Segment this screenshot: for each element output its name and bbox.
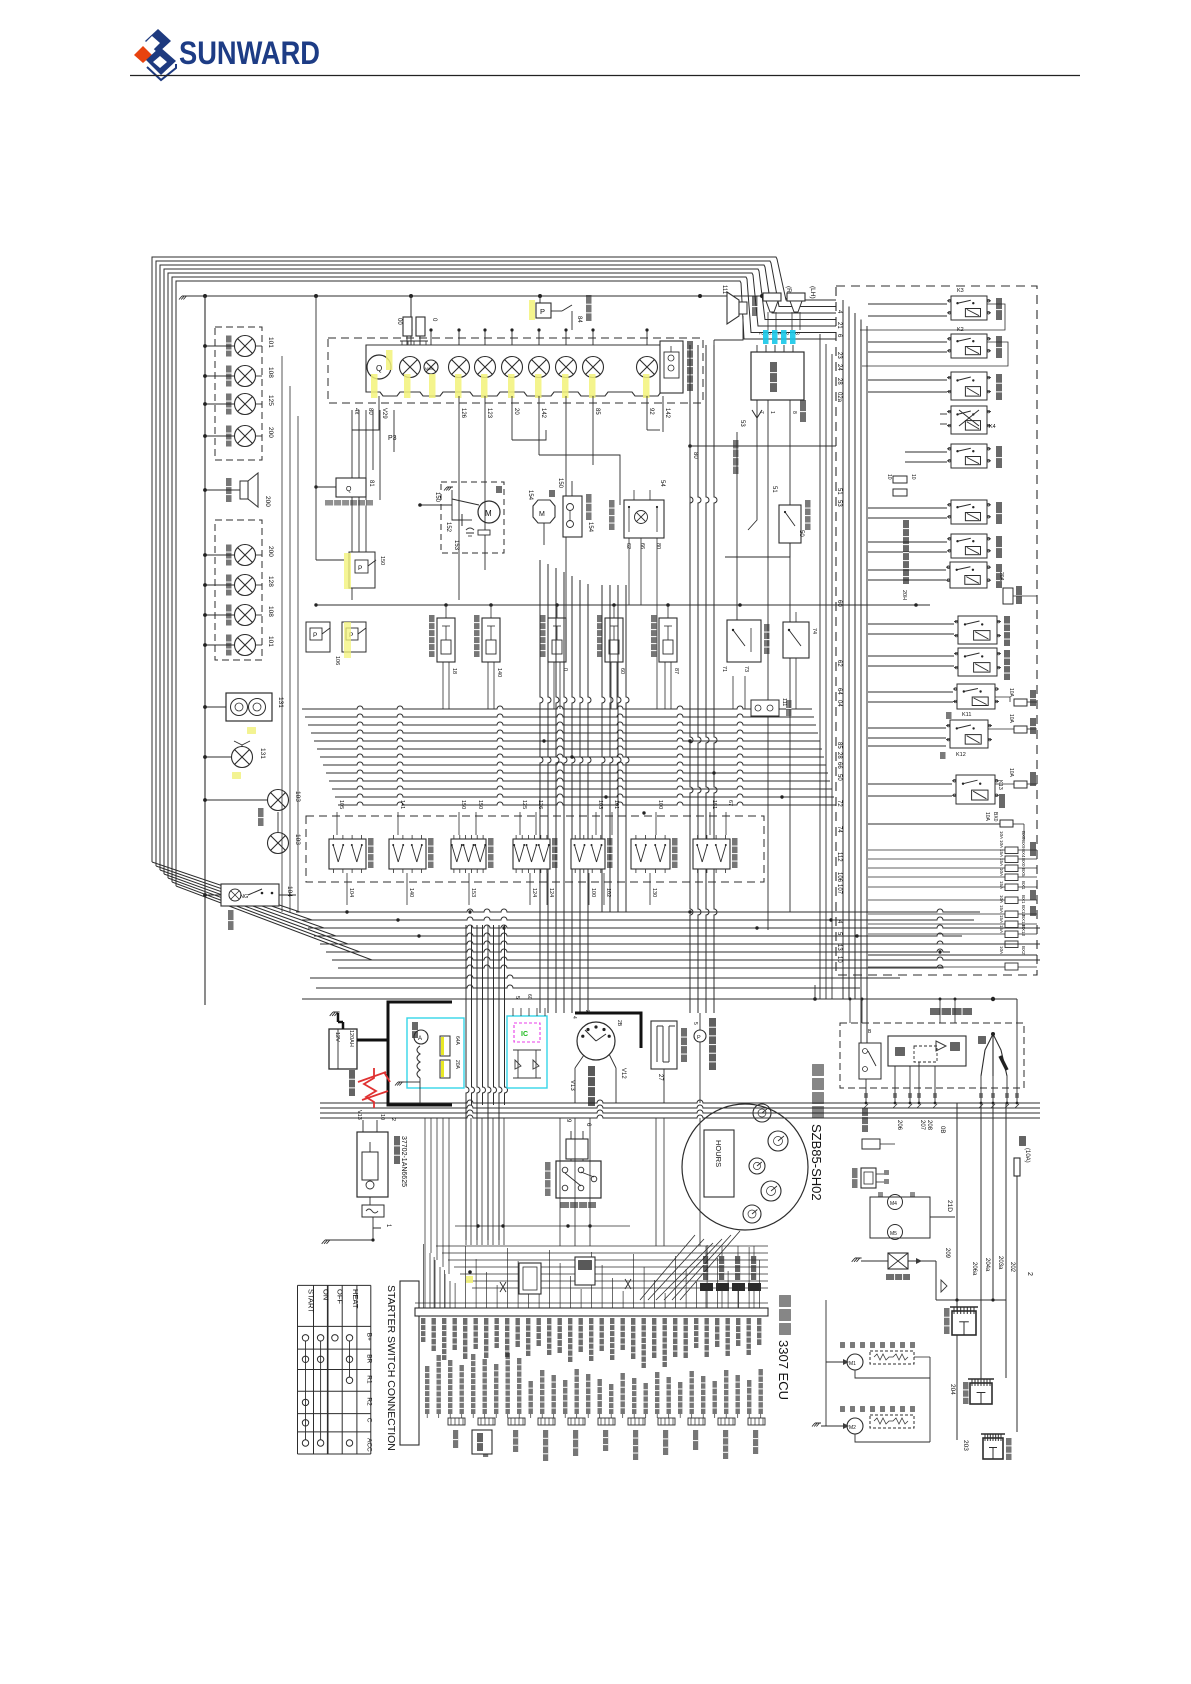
svg-text:V29: V29 — [381, 408, 387, 419]
svg-text:126: 126 — [460, 408, 466, 419]
cigar lighter 131 — [205, 706, 226, 708]
dashed box - marker lamp group 1 — [215, 327, 262, 460]
svg-text:200: 200 — [267, 427, 274, 438]
svg-text:204a: 204a — [984, 1258, 990, 1272]
fuse 10A BX2 bottom — [868, 966, 1005, 968]
svg-text:103: 103 — [597, 800, 603, 809]
svg-text:10A: 10A — [1008, 688, 1014, 698]
svg-text:20: 20 — [513, 408, 519, 415]
svg-text:153: 153 — [453, 540, 459, 551]
door switch 71/73 — [727, 620, 761, 662]
svg-text:10A: 10A — [999, 946, 1004, 954]
wires - radio drops — [748, 408, 757, 530]
svg-text:OFF: OFF — [336, 1289, 345, 1304]
ECU lower connectors — [448, 1418, 465, 1425]
ECU lower labels — [425, 1353, 763, 1418]
wires - lamp column feeders — [281, 356, 283, 912]
svg-text:203: 203 — [962, 1440, 969, 1451]
svg-text:37702-1AN6625: 37702-1AN6625 — [400, 1136, 407, 1187]
lamp 103 a — [205, 799, 267, 801]
svg-text:101: 101 — [613, 800, 619, 809]
glow plug red — [358, 1068, 390, 1108]
svg-text:10: 10 — [886, 474, 892, 480]
svg-text:P: P — [313, 632, 317, 639]
svg-text:140: 140 — [408, 888, 414, 897]
svg-text:92: 92 — [648, 408, 654, 415]
small gauges — [753, 1104, 771, 1122]
switch box 74 — [783, 622, 809, 658]
svg-text:R2: R2 — [365, 1397, 372, 1406]
svg-text:107: 107 — [836, 884, 842, 895]
switch modules row — [329, 839, 366, 869]
wires - relay row pins to bundle — [443, 676, 745, 805]
svg-text:207: 207 — [919, 1120, 925, 1131]
svg-text:66: 66 — [639, 543, 645, 549]
svg-text:74: 74 — [811, 628, 817, 634]
svg-text:(10A): (10A) — [1024, 1148, 1030, 1163]
wires - mid to ECU verticals — [559, 1118, 561, 1246]
solenoid valve — [855, 1257, 862, 1259]
svg-text:2: 2 — [584, 1010, 590, 1013]
svg-text:10A: 10A — [999, 895, 1004, 903]
wire - distribution line y605 — [316, 604, 930, 606]
dashed box - marker lamp group 2 — [215, 520, 262, 660]
wiper motor M2 — [847, 1418, 863, 1434]
label mid frame — [903, 520, 909, 584]
battery 12V 120AH — [329, 1029, 357, 1069]
svg-text:124: 124 — [548, 888, 554, 897]
sensor box 81 — [336, 478, 366, 497]
svg-text:81: 81 — [368, 480, 374, 487]
wire - switch50 bottom link — [725, 543, 790, 557]
svg-text:150: 150 — [557, 478, 563, 489]
header rule — [130, 75, 1080, 77]
svg-text:103: 103 — [294, 834, 301, 845]
svg-text:72: 72 — [836, 800, 842, 807]
ground left of top bus — [182, 295, 188, 297]
svg-text:04: 04 — [836, 700, 842, 707]
switch row wire drops — [346, 873, 348, 905]
bottom right vertical wires — [935, 1261, 937, 1300]
HOURS box — [704, 1130, 734, 1197]
svg-text:101: 101 — [267, 636, 274, 647]
svg-text:124: 124 — [531, 888, 537, 897]
svg-text:10A: 10A — [1008, 714, 1014, 724]
svg-text:150: 150 — [434, 492, 440, 503]
svg-text:15A: 15A — [999, 905, 1004, 913]
gauge Q — [367, 355, 391, 379]
svg-text:BR: BR — [365, 1354, 372, 1363]
svg-text:A: A — [418, 1036, 422, 1042]
wire bundle - middle horizontal — [302, 706, 836, 805]
wire top right junction — [302, 998, 1017, 1000]
svg-text:85: 85 — [836, 742, 842, 749]
wire bundle - center verticals — [540, 345, 717, 1013]
regulator box cyan — [407, 1018, 464, 1088]
bottom right connecting wires — [825, 1300, 827, 1426]
svg-text:K13: K13 — [997, 780, 1003, 790]
lamp 108 — [205, 614, 234, 616]
lamp 103 b — [268, 833, 289, 854]
ECU left bundle verticals — [424, 1118, 426, 1246]
svg-text:2B: 2B — [616, 1020, 622, 1027]
svg-text:18: 18 — [451, 668, 457, 674]
svg-text:13: 13 — [836, 944, 842, 951]
svg-text:108: 108 — [267, 606, 274, 617]
svg-text:200: 200 — [264, 496, 271, 507]
svg-text:203a: 203a — [997, 1256, 1003, 1270]
fuel pump — [694, 1030, 706, 1042]
coil 203 — [983, 1438, 1003, 1459]
svg-text:P: P — [540, 307, 545, 316]
svg-text:15A: 15A — [999, 881, 1004, 889]
cluster wire fan — [640, 1231, 740, 1300]
ECU connector bar — [415, 1308, 768, 1316]
svg-text:2: 2 — [1026, 1272, 1033, 1276]
svg-text:8: 8 — [791, 411, 797, 414]
svg-text:151: 151 — [711, 800, 717, 809]
svg-text:V12: V12 — [620, 1068, 626, 1079]
button box — [861, 1168, 876, 1188]
svg-text:SZB85-SH02: SZB85-SH02 — [809, 1124, 824, 1201]
svg-text:STARTER SWITCH CONNECTION: STARTER SWITCH CONNECTION — [385, 1285, 397, 1451]
svg-text:K2: K2 — [957, 327, 964, 333]
svg-text:101: 101 — [267, 337, 274, 348]
svg-text:21D: 21D — [946, 1200, 953, 1212]
svg-text:20A: 20A — [454, 1060, 460, 1070]
svg-text:154: 154 — [527, 490, 533, 501]
svg-text:20H: 20H — [901, 590, 907, 600]
terminal tick labels — [864, 1093, 868, 1098]
svg-text:10A: 10A — [999, 831, 1004, 839]
relay K12 — [950, 720, 988, 748]
svg-text:106: 106 — [836, 872, 842, 883]
lamp 125 — [205, 403, 234, 405]
svg-text:60: 60 — [619, 668, 625, 674]
svg-text:71: 71 — [721, 666, 727, 672]
thick battery cables — [357, 1002, 641, 1105]
svg-text:4: 4 — [571, 1016, 577, 1019]
svg-text:R1: R1 — [365, 1375, 372, 1384]
relay K8 — [950, 562, 987, 588]
svg-text:0B: 0B — [939, 1126, 945, 1133]
lamp 200 — [205, 435, 234, 437]
svg-text:100: 100 — [657, 800, 663, 809]
svg-text:126: 126 — [537, 800, 543, 809]
svg-text:M: M — [485, 509, 492, 518]
svg-text:200: 200 — [267, 546, 274, 557]
svg-text:M5: M5 — [890, 1231, 897, 1237]
ECU pin comb above bar — [424, 1244, 760, 1308]
svg-text:23: 23 — [836, 352, 842, 359]
frame bottom inner line — [868, 954, 1037, 956]
svg-text:10: 10 — [910, 474, 916, 480]
ECU lower wire bar — [425, 1411, 768, 1413]
relay K11 — [957, 684, 995, 709]
washer coil 204 — [970, 1383, 992, 1404]
svg-text:5: 5 — [692, 1022, 698, 1025]
lamp 101 — [205, 345, 234, 347]
svg-text:BX1: BX1 — [1021, 895, 1026, 904]
svg-text:ACC: ACC — [365, 1438, 372, 1452]
washer pump M 154 — [533, 500, 555, 523]
svg-text:108: 108 — [267, 367, 274, 378]
svg-text:HOURS: HOURS — [714, 1140, 723, 1167]
cluster label SZB85-SH02 — [812, 1064, 824, 1118]
svg-text:206a: 206a — [971, 1262, 977, 1276]
svg-text:27: 27 — [657, 1074, 663, 1081]
svg-text:106: 106 — [334, 656, 340, 665]
svg-text:10A: 10A — [1008, 768, 1014, 778]
P switch top — [536, 303, 551, 318]
svg-text:V13: V13 — [569, 1080, 575, 1091]
svg-text:K3: K3 — [957, 288, 964, 294]
svg-text:10A: 10A — [984, 812, 990, 822]
svg-text:80: 80 — [655, 543, 661, 549]
svg-text:BX8: BX8 — [1021, 831, 1026, 840]
ECU label — [779, 1295, 791, 1335]
svg-text:M4: M4 — [890, 1201, 897, 1207]
svg-text:10A: 10A — [999, 840, 1004, 848]
svg-text:BX13: BX13 — [1021, 925, 1026, 937]
ECU upper pin labels — [421, 1318, 761, 1368]
svg-text:Q: Q — [346, 486, 352, 493]
svg-text:62: 62 — [625, 543, 631, 549]
radio — [751, 352, 804, 400]
svg-text:M1: M1 — [849, 1361, 856, 1367]
svg-text:208: 208 — [926, 1120, 932, 1131]
svg-text:2: 2 — [758, 332, 764, 335]
lamp 101 — [205, 644, 234, 646]
ECU left feed bundle — [425, 1246, 450, 1308]
svg-text:60: 60 — [836, 600, 842, 607]
relay - headlamp relays row — [437, 618, 455, 662]
instrument cluster circle SZB85 — [682, 1104, 808, 1230]
wire - top bus — [188, 295, 762, 297]
wire - ECU pre-gather line — [455, 1225, 630, 1227]
svg-text:53: 53 — [739, 420, 745, 427]
svg-text:150: 150 — [477, 800, 483, 809]
wires - cluster drops — [351, 300, 353, 396]
glow relay coil — [952, 1311, 976, 1335]
dashed box - wiper motor — [441, 482, 504, 553]
wire bundle - lower horizontal — [296, 909, 1040, 988]
svg-text:62: 62 — [836, 660, 842, 667]
svg-text:104: 104 — [286, 886, 293, 897]
svg-text:Q: Q — [376, 364, 382, 373]
svg-text:02a: 02a — [836, 392, 842, 403]
svg-text:20A: 20A — [998, 572, 1004, 582]
vertical feeders down to battery row — [419, 1084, 421, 1103]
svg-text:4x: 4x — [353, 408, 359, 414]
wire bundle - bottom horizontal — [320, 1100, 1040, 1118]
preheat fuse box — [862, 1108, 868, 1132]
svg-text:85: 85 — [594, 408, 600, 415]
relay K5 — [951, 444, 987, 468]
svg-text:103: 103 — [294, 791, 301, 802]
svg-text:15A: 15A — [999, 858, 1004, 866]
svg-text:140: 140 — [496, 668, 502, 677]
fuse 20A top right — [1003, 588, 1013, 604]
alternator regulator boxes — [859, 1043, 881, 1079]
svg-text:67: 67 — [727, 800, 733, 806]
svg-text:125: 125 — [267, 395, 274, 406]
svg-text:0: 0 — [562, 668, 568, 671]
svg-text:BX0: BX0 — [992, 812, 998, 822]
svg-text:51: 51 — [771, 486, 777, 493]
svg-text:IC: IC — [521, 1031, 528, 1038]
svg-text:V13: V13 — [356, 1110, 362, 1120]
svg-text:80: 80 — [692, 452, 698, 459]
dashed box - alternator — [840, 1023, 1024, 1088]
relay K9 — [951, 372, 987, 400]
yellow highlights — [371, 350, 650, 398]
svg-text:24: 24 — [836, 364, 842, 371]
svg-text:12V: 12V — [334, 1032, 340, 1042]
relay K2 — [951, 334, 987, 358]
svg-text:120AH: 120AH — [348, 1030, 354, 1047]
ECU upper right connectors — [700, 1283, 713, 1291]
svg-text:21: 21 — [836, 322, 842, 329]
relay K7 — [951, 534, 987, 558]
svg-text:130: 130 — [651, 888, 657, 897]
junction dots on bundles — [345, 910, 348, 913]
svg-text:HEAT: HEAT — [351, 1289, 360, 1309]
SUNWARD logo icon — [134, 29, 176, 80]
svg-text:152: 152 — [445, 522, 451, 533]
svg-text:142: 142 — [540, 408, 546, 419]
switch row top feeds — [336, 812, 338, 835]
svg-text:K11: K11 — [962, 712, 971, 718]
svg-text:K12: K12 — [956, 752, 966, 758]
switch 106 small P pair — [306, 622, 330, 652]
wiper motor M1 — [847, 1354, 863, 1370]
small box right of cluster - hourmeter disc — [660, 341, 683, 393]
svg-text:15A: 15A — [999, 925, 1004, 933]
svg-text:MAIN: MAIN — [425, 367, 434, 371]
starter motor — [357, 1132, 388, 1197]
Mobile box — [472, 1430, 492, 1454]
svg-text:50: 50 — [836, 774, 842, 781]
svg-text:START: START — [307, 1289, 316, 1313]
right vertical bus — [820, 300, 867, 1043]
alternator claw — [981, 1034, 993, 1076]
antenna — [756, 418, 758, 430]
dashed frame - relay panel — [836, 286, 1037, 975]
svg-text:BX4: BX4 — [1021, 849, 1026, 858]
ECU small boxes upper — [519, 1263, 541, 1294]
alternator drop wires — [865, 1079, 867, 1103]
svg-text:206: 206 — [896, 1120, 902, 1131]
safety relay box — [566, 1139, 588, 1159]
svg-text:51: 51 — [836, 488, 842, 495]
instrument cluster body — [366, 345, 683, 396]
svg-text:ON: ON — [322, 1289, 331, 1300]
svg-text:P: P — [697, 1035, 701, 1041]
svg-text:153: 153 — [470, 888, 476, 897]
dashed box - instrument lamp cluster — [328, 338, 703, 403]
svg-text:BX2: BX2 — [1021, 946, 1026, 955]
svg-text:104: 104 — [348, 888, 354, 897]
switch 150 small — [349, 552, 375, 588]
svg-text:74: 74 — [836, 826, 842, 833]
wires - switch row to bundle links — [336, 805, 338, 812]
fan motors M4 M5 — [870, 1197, 930, 1238]
svg-text:102: 102 — [605, 888, 611, 897]
svg-text:P3: P3 — [388, 435, 397, 442]
svg-text:131: 131 — [277, 697, 284, 708]
wiper motor M — [478, 501, 500, 523]
lamp 131 with bracket — [205, 756, 231, 758]
ECU outer boxes — [400, 1281, 419, 1445]
lamp 200 — [205, 554, 234, 556]
svg-text:SUNWARD: SUNWARD — [179, 35, 320, 71]
choke heater — [651, 1021, 677, 1069]
svg-text:00: 00 — [396, 318, 402, 325]
svg-text:K4: K4 — [989, 424, 996, 430]
horn button 111 — [751, 700, 779, 716]
svg-text:C: C — [365, 1418, 372, 1423]
svg-text:123: 123 — [486, 408, 492, 419]
relay K10 pair — [958, 616, 997, 644]
svg-text:80: 80 — [367, 408, 373, 415]
horn speaker — [205, 489, 248, 491]
fuse bank — [868, 849, 1005, 851]
svg-text:64: 64 — [836, 688, 842, 695]
svg-text:10A: 10A — [999, 868, 1004, 876]
wire bundle - left vertical drop — [466, 925, 508, 1240]
svg-text:BX0: BX0 — [1021, 858, 1026, 867]
svg-text:66: 66 — [836, 762, 842, 769]
svg-text:28: 28 — [836, 752, 842, 759]
ignition switch — [577, 1022, 615, 1060]
svg-text:2: 2 — [390, 1118, 396, 1121]
svg-text:53: 53 — [836, 500, 842, 507]
relay K4 — [951, 406, 987, 434]
svg-text:54: 54 — [659, 480, 665, 487]
svg-text:105: 105 — [338, 800, 344, 809]
svg-text:NG: NG — [240, 894, 248, 900]
svg-text:150: 150 — [460, 800, 466, 809]
svg-text:64A: 64A — [454, 1036, 460, 1046]
relay K6 — [951, 500, 987, 524]
flasher box cyan with IC — [507, 1016, 547, 1088]
svg-text:112: 112 — [836, 852, 842, 862]
svg-text:202: 202 — [1009, 1262, 1015, 1273]
svg-text:209: 209 — [944, 1248, 950, 1259]
svg-text:150: 150 — [379, 556, 385, 565]
svg-text:154: 154 — [587, 522, 593, 533]
starter solenoid small — [362, 1205, 384, 1217]
svg-text:111: 111 — [721, 285, 727, 295]
dashed box - switch row — [306, 816, 764, 882]
fuse pair 20A — [893, 476, 907, 483]
wires - mid left risers — [315, 295, 317, 297]
switch NG 104 (all lights) — [205, 894, 221, 896]
horn 111 — [727, 292, 739, 324]
twin resistors 00/0 — [403, 317, 412, 336]
svg-text:128: 128 — [267, 576, 274, 587]
svg-text:M2: M2 — [849, 1425, 856, 1431]
relay K13 — [956, 775, 995, 804]
ground under starter — [325, 1239, 332, 1241]
svg-text:B+: B+ — [365, 1333, 372, 1341]
svg-text:BX9: BX9 — [1021, 840, 1026, 849]
svg-text:100: 100 — [590, 888, 596, 897]
speaker RH — [763, 293, 781, 301]
svg-text:15A: 15A — [999, 849, 1004, 857]
switch 51/50 — [779, 505, 801, 543]
